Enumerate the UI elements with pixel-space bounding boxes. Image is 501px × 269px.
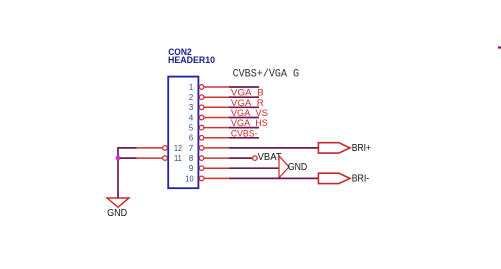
svg-text:5: 5 bbox=[189, 124, 194, 133]
svg-text:1: 1 bbox=[189, 83, 193, 92]
svg-text:11: 11 bbox=[174, 154, 182, 163]
connector CON2 body bbox=[168, 77, 198, 189]
pin number 11 bbox=[174, 154, 182, 163]
svg-text:7: 7 bbox=[189, 144, 193, 153]
wire net BRI- bbox=[229, 177, 318, 179]
pin number 3 bbox=[189, 103, 193, 112]
wire pin 11 to GND bbox=[118, 157, 137, 159]
pin number 6 bbox=[189, 134, 193, 143]
pin number 12 bbox=[174, 144, 182, 153]
pin number 9 bbox=[189, 164, 193, 173]
svg-text:3: 3 bbox=[189, 103, 193, 112]
svg-text:6: 6 bbox=[189, 134, 193, 143]
net label VGA_B bbox=[231, 88, 264, 99]
svg-text:12: 12 bbox=[174, 144, 182, 153]
junction bbox=[116, 156, 121, 161]
net label VGA_VS bbox=[231, 108, 268, 119]
port BRI+ bbox=[318, 143, 371, 154]
wire net VGA_VS bbox=[229, 106, 259, 108]
svg-text:BRI-: BRI- bbox=[352, 173, 370, 184]
pin 8 bbox=[199, 156, 229, 161]
wire clipped at right edge bbox=[498, 46, 501, 48]
pin 5 bbox=[199, 125, 229, 130]
pin 1 bbox=[199, 85, 229, 90]
value HEADER10 bbox=[168, 55, 215, 65]
svg-text:VBAT: VBAT bbox=[258, 152, 282, 163]
wire net VGA_R bbox=[229, 96, 259, 98]
wire pin 6 stub bbox=[229, 137, 259, 139]
svg-text:GND: GND bbox=[107, 208, 127, 219]
svg-text:BRI+: BRI+ bbox=[352, 143, 371, 154]
pin 3 bbox=[199, 105, 229, 110]
wire net VBAT bbox=[229, 157, 253, 159]
pin number 4 bbox=[189, 113, 194, 122]
refdes CON2 bbox=[168, 47, 192, 57]
pin 6 bbox=[199, 136, 229, 141]
pin 10 bbox=[199, 176, 229, 181]
port BRI- bbox=[318, 173, 369, 184]
wire pin 12 to GND bbox=[118, 147, 137, 149]
svg-text:4: 4 bbox=[189, 113, 194, 122]
ground GND (bottom) bbox=[107, 198, 129, 219]
net label VGA_HS bbox=[231, 118, 268, 129]
ground GND (right-pointing) bbox=[279, 156, 307, 178]
node VBAT (off-page circle) bbox=[253, 156, 258, 161]
pin 7 bbox=[199, 146, 229, 151]
wire net VGA_B bbox=[229, 86, 259, 88]
pin number 8 bbox=[189, 154, 193, 163]
pin number 1 bbox=[189, 83, 193, 92]
svg-text:2: 2 bbox=[189, 93, 193, 102]
net label VGA_R bbox=[231, 98, 264, 109]
wire net VGA_HS bbox=[229, 117, 259, 119]
svg-text:9: 9 bbox=[189, 164, 193, 173]
svg-text:10: 10 bbox=[185, 174, 194, 183]
wire vertical to GND bbox=[117, 147, 119, 198]
pin 4 bbox=[199, 115, 229, 120]
pin 12 bbox=[137, 146, 168, 151]
wire pin 9 to GND bbox=[229, 167, 279, 169]
wire net CVBS- bbox=[229, 127, 259, 129]
net title CVBS+/VGA G bbox=[233, 68, 300, 80]
pin number 7 bbox=[189, 144, 193, 153]
pin number 10 bbox=[185, 174, 194, 183]
pin 9 bbox=[199, 166, 229, 171]
wire net BRI+ bbox=[229, 147, 318, 149]
svg-text:8: 8 bbox=[189, 154, 193, 163]
net label CVBS- bbox=[231, 128, 258, 139]
svg-text:GND: GND bbox=[288, 162, 307, 173]
svg-text:HEADER10: HEADER10 bbox=[168, 55, 215, 65]
pin number 2 bbox=[189, 93, 193, 102]
pin 11 bbox=[137, 156, 168, 161]
pin number 5 bbox=[189, 124, 194, 133]
pin 2 bbox=[199, 95, 229, 100]
svg-text:CVBS+/VGA G: CVBS+/VGA G bbox=[233, 68, 300, 80]
net label VBAT bbox=[258, 152, 282, 163]
